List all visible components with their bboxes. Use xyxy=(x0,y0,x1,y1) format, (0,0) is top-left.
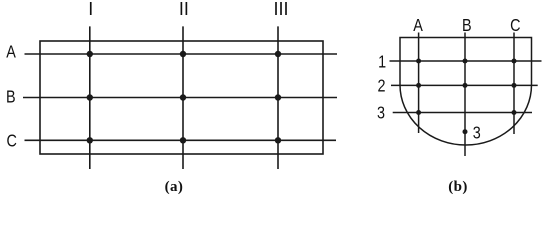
wire column II xyxy=(182,26,184,169)
svg-text:C: C xyxy=(7,131,18,151)
svg-text:A: A xyxy=(6,42,16,62)
junction C-2 xyxy=(512,83,517,88)
svg-text:C: C xyxy=(510,15,521,35)
svg-text:3: 3 xyxy=(377,103,385,123)
displaced contact node 3 on column B xyxy=(463,129,468,134)
junction B-2 xyxy=(463,83,468,88)
svg-text:2: 2 xyxy=(377,76,385,96)
svg-text:III: III xyxy=(273,0,288,19)
junction C-1 xyxy=(512,59,517,64)
svg-text:(a): (a) xyxy=(165,179,184,195)
svg-text:1: 1 xyxy=(378,52,386,72)
svg-text:3: 3 xyxy=(473,123,481,143)
panel (b) round-bottom outline xyxy=(400,38,532,146)
junction A-1 xyxy=(416,59,421,64)
junction B-I xyxy=(87,94,93,100)
junction B-III xyxy=(275,94,281,100)
svg-text:A: A xyxy=(413,15,423,35)
junction B-1 xyxy=(463,59,468,64)
junction C-I xyxy=(87,137,93,143)
wire row 1 xyxy=(390,60,542,62)
svg-text:B: B xyxy=(6,87,16,107)
wire column I xyxy=(89,26,91,169)
junction A-2 xyxy=(416,83,421,88)
wire column A (b) xyxy=(418,33,420,134)
wire row 2 xyxy=(391,84,538,86)
svg-text:II: II xyxy=(179,0,189,19)
svg-text:B: B xyxy=(462,15,472,35)
junction C-III xyxy=(275,137,281,143)
wire row B xyxy=(23,97,337,99)
junction A-3 xyxy=(416,110,421,115)
svg-text:I: I xyxy=(88,0,93,19)
junction C-II xyxy=(180,137,186,143)
svg-text:(b): (b) xyxy=(448,179,468,195)
junction A-III xyxy=(275,51,281,57)
junction B-II xyxy=(180,94,186,100)
wire column B (b) xyxy=(464,33,466,157)
junction C-3 xyxy=(512,110,517,115)
wire row A xyxy=(25,53,338,55)
wire row C xyxy=(25,139,337,141)
wire column C (b) xyxy=(513,33,515,135)
junction A-II xyxy=(180,51,186,57)
wire row 3 xyxy=(393,112,532,114)
junction A-I xyxy=(87,51,93,57)
wire column III xyxy=(277,26,279,169)
panel (a) outer rectangle frame xyxy=(40,41,323,154)
